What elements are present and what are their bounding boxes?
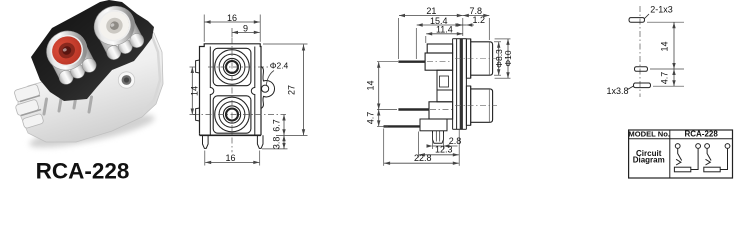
svg-text:16: 16 <box>227 13 237 23</box>
svg-text:Φ2.4: Φ2.4 <box>270 60 289 70</box>
svg-text:3.8: 3.8 <box>271 137 281 150</box>
svg-text:1x3.8: 1x3.8 <box>606 86 628 96</box>
svg-text:RCA-228: RCA-228 <box>36 159 130 183</box>
svg-text:16: 16 <box>225 153 235 163</box>
svg-text:9: 9 <box>243 23 248 33</box>
svg-text:Φ10: Φ10 <box>503 50 513 67</box>
svg-text:27: 27 <box>287 85 297 95</box>
svg-text:21: 21 <box>426 6 436 16</box>
svg-text:RCA-228: RCA-228 <box>684 130 718 139</box>
svg-text:14: 14 <box>365 80 375 90</box>
svg-text:14: 14 <box>660 41 670 51</box>
svg-text:6.7: 6.7 <box>271 119 281 132</box>
svg-text:22.8: 22.8 <box>414 153 432 163</box>
svg-text:4.7: 4.7 <box>365 112 375 125</box>
svg-text:4.7: 4.7 <box>660 72 670 85</box>
svg-text:1.2: 1.2 <box>473 15 486 25</box>
svg-text:MODEL No.: MODEL No. <box>628 130 670 139</box>
svg-text:Diagram: Diagram <box>633 156 665 165</box>
svg-text:11.4: 11.4 <box>436 24 453 34</box>
svg-text:2-1x3: 2-1x3 <box>650 5 673 15</box>
svg-text:12.3: 12.3 <box>435 145 453 155</box>
svg-text:14: 14 <box>190 86 200 96</box>
